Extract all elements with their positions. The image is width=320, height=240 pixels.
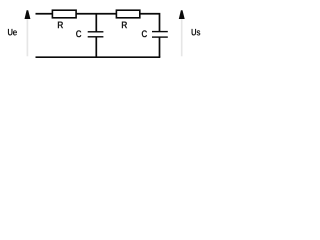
background [0,0,216,68]
label Us [192,29,201,36]
capacitor C1 bottom plate [88,36,104,38]
capacitor C2 top plate [152,31,168,33]
node Us arrow stem [181,19,183,56]
wire junction down to C1 [95,14,97,32]
node Ue arrowhead [25,10,31,19]
resistor R1 [52,10,76,18]
wire C1 to bottom rail [95,37,97,57]
label R1 [58,22,63,29]
bottom rail wire [36,56,161,58]
wire top-right with corner down [140,14,160,32]
capacitor C2 bottom plate [152,36,168,38]
label C1 [76,30,81,37]
node Ue arrow stem [26,19,28,56]
wire top-left [36,13,53,15]
wire between R1 and R2 [76,13,116,15]
label R2 [122,22,127,29]
capacitor C1 top plate [88,31,104,33]
node Us arrowhead [179,10,185,19]
label C2 [142,30,147,37]
resistor R2 [116,10,139,18]
wire C2 to bottom rail [159,37,161,57]
label Ue [8,29,17,36]
